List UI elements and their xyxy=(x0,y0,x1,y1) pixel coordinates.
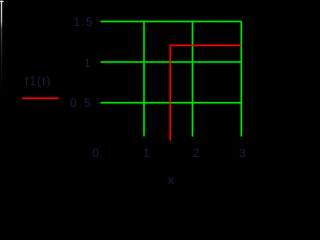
red legend line sample xyxy=(22,97,59,99)
red glow underlay xyxy=(22,45,242,140)
svg-text:2: 2 xyxy=(193,146,200,160)
svg-text:1: 1 xyxy=(143,146,150,160)
svg-text:3: 3 xyxy=(239,146,246,160)
svg-text:0.5: 0.5 xyxy=(70,96,93,110)
svg-text:0: 0 xyxy=(92,146,99,160)
grid horizontal line y=62 xyxy=(101,61,242,63)
white stub at top-left corner xyxy=(0,0,4,2)
grid vertical line x=241 xyxy=(240,22,242,137)
grid horizontal line y=103 xyxy=(101,102,242,104)
chart: black-background plot with green grid and red step line xyxy=(0,0,270,188)
svg-text:f1(t): f1(t) xyxy=(25,74,51,88)
grid vertical line x=144 xyxy=(143,22,145,137)
red step curve xyxy=(170,45,241,140)
svg-text:x: x xyxy=(168,172,175,187)
grid horizontal line y=21 xyxy=(101,21,242,23)
svg-text:1: 1 xyxy=(84,56,91,70)
grid vertical line x=192 xyxy=(192,22,194,137)
svg-text:1.5: 1.5 xyxy=(74,15,94,29)
grid glow underlay xyxy=(101,22,242,137)
